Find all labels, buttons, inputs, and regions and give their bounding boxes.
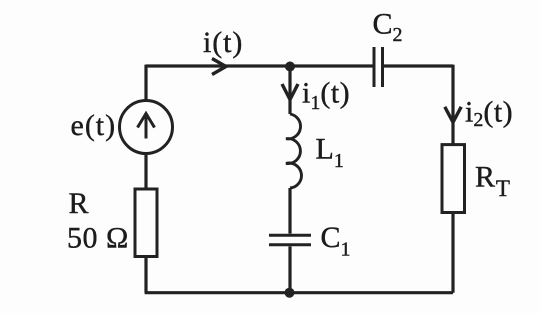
svg-text:i(t): i(t): [203, 26, 243, 59]
node dot bottom junction: [285, 288, 295, 298]
svg-text:i2(t): i2(t): [465, 96, 513, 132]
svg-text:50 Ω: 50 Ω: [67, 221, 129, 254]
voltage source e(t) U1: [120, 101, 173, 154]
wire left between source and R: [144, 154, 147, 190]
inductor L1 coil: [286, 114, 301, 188]
arrowhead i(t) on top wire: [212, 59, 226, 75]
wire right vertical upper: [451, 65, 454, 145]
svg-text:C1: C1: [321, 221, 351, 260]
wire top middle segment to C2: [290, 64, 373, 67]
wire top left segment: [146, 64, 290, 67]
arrowhead i2(t) down on right branch: [445, 107, 461, 123]
arrow inside source pointing up: [138, 114, 155, 139]
svg-text:C2: C2: [373, 8, 403, 46]
capacitor C2 plates: [374, 47, 383, 87]
wire middle upper: [288, 66, 291, 114]
wire left below R: [144, 257, 147, 293]
wire right vertical lower: [451, 213, 454, 293]
wire left vertical top: [144, 65, 147, 101]
wire middle below C1: [288, 246, 291, 292]
svg-text:L1: L1: [316, 133, 344, 172]
wire top right segment after C2: [384, 64, 453, 67]
capacitor C1 plates: [269, 235, 311, 245]
wire bottom: [145, 291, 453, 294]
svg-text:i1(t): i1(t): [302, 77, 350, 115]
node dot top junction: [285, 62, 295, 72]
svg-text:RT: RT: [475, 161, 510, 201]
arrowhead i1(t) down on middle branch: [282, 84, 298, 100]
resistor R: [135, 189, 157, 257]
svg-text:R: R: [69, 187, 89, 220]
wire middle between L1 and C1: [288, 188, 291, 234]
resistor RT: [442, 145, 465, 213]
svg-text:e(t): e(t): [71, 109, 117, 142]
